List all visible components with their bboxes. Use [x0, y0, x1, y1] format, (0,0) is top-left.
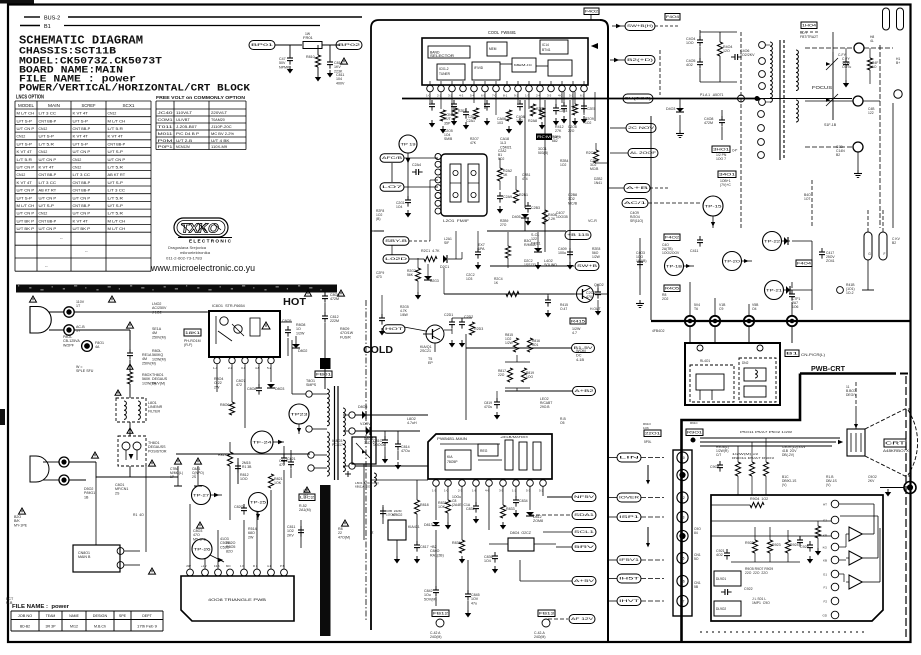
posistor TH801 — [118, 436, 146, 466]
svg-text:SCX1: SCX1 — [123, 103, 136, 108]
svg-text:MY-1PE: MY-1PE — [14, 523, 28, 527]
CN801 pin2 — [117, 562, 124, 569]
wire — [845, 48, 847, 62]
svg-text:B1: B1 — [44, 24, 51, 30]
svg-text:U/T CN P: U/T CN P — [17, 188, 35, 193]
svg-text:R9O1: R9O1 — [687, 431, 702, 435]
svg-text:U/T 2-B: U/T 2-B — [176, 138, 192, 143]
relay DR801 — [508, 538, 534, 551]
svg-text:1OOOu: 1OOOu — [373, 443, 385, 447]
wire — [371, 230, 384, 232]
wire — [543, 531, 572, 533]
svg-text:L/T 5.R: L/T 5.R — [39, 141, 55, 146]
resistor R813 — [227, 452, 232, 466]
svg-text:NAME: NAME — [69, 614, 79, 618]
wire — [355, 414, 428, 416]
resistor R2E3 — [530, 104, 535, 116]
ground — [887, 489, 889, 492]
wire — [396, 540, 398, 556]
svg-text:F1: F1 — [823, 586, 827, 590]
svg-text:AC/1: AC/1 — [624, 201, 646, 205]
svg-text:82O: 82O — [226, 549, 233, 553]
svg-text:TP-2O: TP-2O — [724, 259, 740, 263]
connector L02D — [383, 255, 409, 264]
resistor R923 — [767, 540, 772, 553]
line filter LF801 — [116, 398, 146, 422]
ground — [537, 262, 539, 265]
wire — [447, 513, 449, 522]
wire — [257, 512, 259, 521]
wire rail x545 — [544, 100, 546, 252]
svg-text:24O(M): 24O(M) — [534, 635, 546, 639]
svg-text:JC40: JC40 — [158, 110, 174, 115]
svg-text:U/T CN P: U/T CN P — [39, 195, 57, 200]
svg-text:2KV: 2KV — [287, 533, 294, 537]
relay box 1 — [690, 365, 734, 402]
AC pin L — [64, 307, 74, 317]
svg-text:(7V)+C: (7V)+C — [720, 183, 731, 187]
wire — [417, 258, 419, 268]
ground — [817, 548, 819, 551]
capacitor C404 — [697, 39, 703, 41]
wire — [207, 311, 209, 313]
wire — [608, 457, 617, 459]
svg-text:24O(M): 24O(M) — [430, 635, 442, 639]
wire — [434, 343, 436, 352]
svg-text:17th Feb 9: 17th Feb 9 — [137, 625, 157, 629]
node B1 — [20, 25, 40, 27]
wire — [692, 474, 720, 476]
connector IOVER — [617, 493, 641, 502]
arrow — [647, 465, 649, 483]
svg-text:5V(TO7): 5V(TO7) — [625, 97, 651, 101]
svg-text:R2C1 4.7K: R2C1 4.7K — [421, 249, 440, 253]
svg-text:6B(1)A 2O2: 6B(1)A 2O2 — [355, 485, 372, 489]
svg-text:M.B.Ch: M.B.Ch — [94, 625, 106, 629]
svg-text:2A1(M): 2A1(M) — [299, 508, 311, 512]
svg-text:4-3: 4-3 — [459, 94, 464, 98]
ground — [475, 516, 477, 519]
svg-text:B1: B1 — [786, 352, 798, 356]
test point TF-24 — [251, 431, 273, 453]
svg-text:R9O4 1O2: R9O4 1O2 — [750, 497, 768, 501]
capacitor C2G1 — [405, 199, 411, 201]
transformer T801 primary — [327, 389, 329, 426]
svg-text:C-FY: C-FY — [838, 53, 847, 57]
capacitor C926 — [797, 539, 803, 541]
wire — [520, 580, 572, 582]
junction dot — [755, 97, 759, 101]
svg-text:U/T S-P: U/T S-P — [17, 118, 33, 123]
wire — [446, 85, 448, 99]
svg-text:1O: 1O — [872, 65, 877, 69]
svg-text:473: 473 — [376, 275, 382, 279]
wire — [641, 600, 664, 602]
resistor R2G2 — [415, 268, 420, 281]
svg-text:SOUND: SOUND — [544, 263, 557, 267]
capacitor C822 — [300, 520, 302, 548]
warning triangle — [109, 296, 116, 302]
wire — [805, 146, 853, 148]
svg-text:C2E2: C2E2 — [468, 115, 477, 119]
wire — [43, 461, 59, 463]
wire — [324, 292, 326, 296]
connector SW+B oval — [575, 262, 599, 271]
svg-text:CNT BB-P: CNT BB-P — [39, 118, 57, 123]
svg-text:BUS-2: BUS-2 — [44, 16, 60, 22]
svg-text:R818: R818 — [420, 503, 429, 507]
svg-text:250V(M): 250V(M) — [142, 361, 156, 365]
svg-text:103: 103 — [497, 121, 503, 125]
svg-text:FILE NAME : power: FILE NAME : power — [12, 604, 69, 610]
wire — [298, 424, 300, 434]
wire — [129, 340, 131, 352]
wire — [684, 265, 695, 267]
wire — [839, 559, 846, 561]
svg-text:SIF: SIF — [444, 241, 449, 245]
svg-text:1OK: 1OK — [438, 505, 446, 509]
junction dot C — [744, 316, 754, 326]
wire — [95, 530, 97, 545]
ground — [447, 522, 449, 525]
svg-text:B5: B5 — [681, 556, 685, 560]
ground — [809, 556, 811, 559]
svg-text:47Ou: 47Ou — [401, 449, 410, 453]
svg-text:K VT 4T: K VT 4T — [108, 134, 124, 139]
warning triangle — [262, 322, 270, 329]
wire primary left — [308, 397, 310, 426]
svg-text:SM/B: SM/B — [444, 137, 453, 141]
svg-text:TP-1B: TP-1B — [666, 264, 683, 268]
cold block boundary left — [371, 20, 379, 630]
svg-text:S1F-1B: S1F-1B — [824, 123, 837, 127]
wire — [397, 431, 399, 444]
T801 sec pins — [349, 412, 355, 418]
wire — [455, 231, 457, 259]
svg-text:mikroelektronika: mikroelektronika — [180, 251, 210, 255]
table FILE NAME — [11, 610, 163, 612]
connector LIN — [617, 453, 641, 462]
wire — [204, 558, 206, 569]
PWB-CRT right edge — [905, 376, 907, 640]
ground — [416, 556, 418, 559]
wire — [404, 327, 426, 331]
svg-text:22O: 22O — [498, 373, 505, 377]
wire — [542, 486, 544, 496]
connector CN801 box — [73, 545, 120, 572]
wire — [69, 461, 96, 463]
svg-text:2.2K: 2.2K — [548, 217, 556, 221]
junction dot B — [710, 316, 720, 326]
label L8C2 box — [304, 487, 310, 492]
arrow gnd — [442, 126, 444, 129]
svg-text:T0AM20: T0AM20 — [211, 117, 226, 122]
wire — [805, 47, 854, 49]
cold block boundary top — [379, 19, 600, 21]
capacitor C808 — [256, 387, 262, 389]
svg-text:CN12: CN12 — [39, 126, 48, 131]
wire — [791, 282, 793, 288]
svg-text:F: F — [884, 252, 886, 256]
ground — [679, 130, 681, 134]
capacitor C8B — [382, 505, 384, 524]
wire — [641, 497, 664, 499]
fuse resistor FR01 — [303, 42, 322, 49]
svg-text:TP-15: TP-15 — [705, 204, 722, 208]
ground — [569, 262, 571, 265]
wire — [273, 441, 284, 443]
svg-text:CN-P/CR(L): CN-P/CR(L) — [801, 353, 825, 357]
wire — [490, 293, 506, 295]
wire — [711, 535, 831, 537]
svg-text:FBT/TRA2T: FBT/TRA2T — [800, 35, 818, 39]
zener D813 — [432, 522, 439, 526]
diode D2G3 — [424, 276, 432, 280]
wire — [289, 45, 291, 54]
ground — [527, 218, 529, 221]
capacitor C2D6 — [545, 299, 551, 301]
CRT gun — [847, 429, 865, 456]
plus mark — [345, 473, 351, 475]
fuse F801 — [82, 341, 93, 352]
wire — [461, 486, 463, 540]
svg-text:U/T S-P: U/T S-P — [73, 141, 89, 146]
wire — [699, 30, 701, 40]
svg-text:TEAM: TEAM — [46, 614, 56, 618]
wire — [363, 464, 365, 540]
svg-text:G0: G0 — [680, 456, 684, 460]
svg-text:TP-25: TP-25 — [250, 500, 266, 504]
wire — [699, 438, 701, 455]
svg-text:1K: 1K — [503, 173, 508, 177]
svg-text:1/2W: 1/2W — [505, 341, 514, 345]
svg-text:IC8O2: IC8O2 — [392, 513, 402, 517]
svg-text:2W: 2W — [214, 385, 220, 389]
label FX04 box — [796, 260, 812, 267]
svg-text:POSISTOR: POSISTOR — [148, 449, 167, 453]
wire — [129, 422, 131, 436]
warning triangle — [338, 290, 345, 296]
CRT pad 2 — [853, 96, 863, 106]
svg-text:U/T CN P: U/T CN P — [17, 211, 35, 216]
svg-text:C82O: C82O — [234, 505, 244, 509]
wire — [258, 364, 260, 386]
wire — [404, 157, 438, 159]
svg-text:U/T S-P: U/T S-P — [39, 134, 55, 139]
svg-text:R836: R836 — [452, 541, 461, 545]
PWB-CRT border — [682, 374, 801, 642]
transformer core — [334, 386, 336, 480]
svg-text:PC817: PC817 — [332, 443, 343, 447]
svg-text:(V): (V) — [826, 483, 830, 487]
svg-text:(V): (V) — [782, 483, 786, 487]
svg-text:L/T 3 CC: L/T 3 CC — [108, 188, 126, 193]
svg-text:BT/41: BT/41 — [542, 48, 551, 52]
test point TP-15 — [703, 196, 723, 216]
svg-text:REG: REG — [480, 449, 488, 453]
wire — [499, 158, 501, 168]
ground — [555, 118, 557, 121]
svg-text:22O1: 22O1 — [645, 432, 660, 436]
resistor R817 — [507, 368, 512, 382]
wire — [427, 264, 429, 276]
capacitor C843 — [465, 593, 471, 595]
capacitor C911 — [717, 464, 723, 466]
label ROM inverted — [536, 134, 552, 141]
svg-text:P0M: P0M — [158, 138, 173, 143]
capacitor C832 — [473, 505, 479, 507]
wire — [461, 252, 463, 259]
svg-text:C411: C411 — [690, 249, 698, 253]
diode D2C1 — [443, 255, 447, 263]
svg-text:J110P-20C: J110P-20C — [211, 124, 232, 129]
wire — [864, 47, 893, 49]
capacitor C2C9 — [475, 251, 481, 253]
ground — [583, 116, 585, 119]
connector AL-200F — [628, 149, 658, 158]
svg-text:IC14: IC14 — [542, 43, 549, 47]
svg-text:CN12: CN12 — [108, 111, 117, 116]
wire rail x651 — [650, 116, 652, 320]
ground — [499, 206, 501, 209]
svg-text:2C NOV: 2C NOV — [628, 126, 656, 130]
svg-text:C2A9: C2A9 — [503, 195, 512, 199]
svg-text:L/T 5.R: L/T 5.R — [108, 211, 124, 216]
connector L07 — [380, 183, 404, 192]
svg-text:IC8O1 STR-F6654: IC8O1 STR-F6654 — [212, 304, 245, 308]
svg-text:NF5V: NF5V — [574, 495, 596, 499]
wire — [467, 560, 469, 594]
resistor R2D3 — [469, 322, 474, 335]
svg-text:1/2W(M) x3: 1/2W(M) x3 — [732, 452, 759, 456]
warning triangle — [342, 520, 349, 526]
svg-text:B2: B2 — [836, 153, 840, 157]
svg-text:47Ou: 47Ou — [484, 405, 492, 409]
diode D803 — [267, 384, 275, 388]
wire — [740, 32, 742, 230]
svg-text:C9O8: C9O8 — [710, 465, 719, 469]
svg-text:F4O4: F4O4 — [666, 15, 679, 19]
label R901 box — [686, 429, 703, 436]
wire — [324, 340, 326, 360]
wire — [466, 347, 571, 349]
wire — [407, 153, 409, 162]
svg-text:DL9O2: DL9O2 — [716, 607, 726, 611]
wire — [812, 265, 820, 267]
svg-text:ROM: ROM — [537, 135, 551, 139]
svg-text:CN12: CN12 — [39, 211, 48, 216]
svg-text:3HO1: 3HO1 — [713, 148, 729, 152]
wire — [373, 460, 375, 473]
wire — [692, 497, 711, 499]
resistor RX1 — [127, 372, 132, 384]
svg-text:MAIN: MAIN — [48, 103, 60, 108]
svg-text:CN12: CN12 — [73, 165, 82, 170]
svg-text:U/T BK P: U/T BK P — [17, 218, 35, 223]
wire — [809, 521, 811, 545]
label FB02 — [432, 610, 449, 617]
capacitor C813 — [327, 61, 333, 63]
svg-text:KIA431: KIA431 — [408, 525, 420, 529]
warning triangle — [175, 458, 182, 464]
svg-text:L02D: L02D — [385, 257, 408, 261]
ground — [397, 462, 399, 465]
CRT pad 3 — [853, 142, 863, 152]
svg-text:P5O11 P5/A7 P5O2 1/2W: P5O11 P5/A7 P5O2 1/2W — [740, 430, 792, 434]
label 1H04 — [801, 22, 817, 29]
wire — [641, 516, 664, 518]
block degauss relay — [685, 343, 780, 405]
svg-text:4O2: 4O2 — [716, 553, 723, 557]
svg-text:27K: 27K — [555, 129, 562, 133]
transistor Q2C1 — [426, 325, 444, 343]
wire — [595, 143, 597, 150]
wire — [754, 527, 756, 540]
svg-text:DB(-2V): DB(-2V) — [782, 453, 794, 457]
svg-text:SCL1: SCL1 — [574, 530, 594, 534]
resistor R924 — [785, 540, 790, 553]
wire — [447, 486, 449, 500]
wire — [505, 390, 572, 392]
svg-text:AFC/B: AFC/B — [382, 156, 403, 160]
svg-text:MEM: MEM — [489, 47, 497, 51]
svg-text:1SS133: 1SS133 — [524, 263, 536, 267]
wire — [371, 479, 428, 481]
svg-text:U/T S-P: U/T S-P — [108, 180, 124, 185]
svg-text:D2G3: D2G3 — [430, 279, 439, 283]
svg-text:SR(11O): SR(11O) — [630, 219, 643, 223]
degauss pin 2 — [59, 475, 69, 485]
delay line DL902 — [714, 601, 741, 616]
svg-text:PW8481-MAIN: PW8481-MAIN — [437, 437, 468, 441]
warning triangle — [115, 390, 121, 395]
svg-text:L/T 3 CC: L/T 3 CC — [39, 111, 57, 116]
test point TP-20 — [723, 252, 742, 271]
wire — [547, 496, 572, 498]
svg-text:2KV: 2KV — [868, 479, 875, 483]
resistor R2A2 — [497, 168, 502, 181]
svg-text:D8O5: D8O5 — [358, 405, 367, 409]
svg-text:27O: 27O — [500, 223, 507, 227]
wire RGB lines — [700, 437, 840, 439]
capacitor C809 — [322, 295, 328, 297]
svg-text:(B): (B) — [376, 217, 380, 221]
wire — [384, 431, 386, 440]
resistor R836 — [459, 540, 464, 553]
svg-text:HT: HT — [823, 503, 827, 507]
wire — [75, 311, 208, 313]
warning triangle — [92, 452, 99, 458]
capacitor C2E5 — [581, 105, 587, 107]
svg-text:13-6: 13-6 — [214, 564, 220, 568]
svg-text:100u: 100u — [558, 251, 566, 255]
test point TP-18 — [665, 257, 684, 276]
svg-text:K VT 4T: K VT 4T — [73, 134, 89, 139]
svg-text:C8O8: C8O8 — [247, 387, 256, 391]
wire — [714, 298, 716, 316]
capacitor C409 — [567, 251, 573, 253]
warning triangle — [149, 568, 156, 574]
wire — [95, 478, 97, 530]
svg-text:B3: B3 — [681, 515, 685, 519]
svg-text:FB13: FB13 — [539, 612, 554, 616]
connector SW+B(H) — [625, 22, 655, 31]
svg-text:CNT BB-P: CNT BB-P — [39, 172, 57, 177]
capacitor C406 — [734, 54, 736, 60]
wire — [343, 414, 349, 416]
svg-text:U/T S-P: U/T S-P — [39, 203, 55, 208]
wire — [529, 486, 531, 510]
